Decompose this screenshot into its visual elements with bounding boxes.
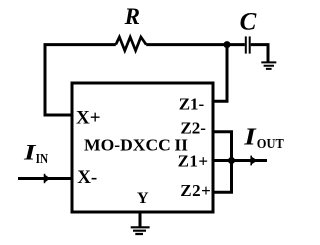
svg-text:Y: Y <box>137 190 149 207</box>
svg-text:C: C <box>240 9 257 36</box>
wire: Y ground stub <box>139 213 142 227</box>
wire: top wire from resistor to capacitor <box>146 43 245 46</box>
svg-text:R: R <box>124 4 140 29</box>
svg-text:I: I <box>243 122 257 150</box>
ground (capacitor) <box>261 62 276 69</box>
wire: Z1+ output <box>213 159 267 162</box>
svg-text:X+: X+ <box>76 108 101 129</box>
svg-text:I: I <box>23 140 36 165</box>
svg-text:MO-DXCC II: MO-DXCC II <box>84 136 188 155</box>
op-amp block U1 MO-DXCCII <box>72 83 213 212</box>
node: junction dot top <box>224 41 231 48</box>
wire: capacitor to ground <box>251 45 268 62</box>
arrowhead input <box>44 174 50 183</box>
arrowhead output <box>251 156 258 165</box>
wire: left feedback loop from X+ up to resistor <box>45 45 116 115</box>
resistor R1 zigzag <box>116 37 146 51</box>
svg-text:IN: IN <box>36 152 49 167</box>
wire: input IIN into X- <box>18 177 72 180</box>
svg-text:Z1-: Z1- <box>179 94 205 113</box>
node: junction dot output <box>228 157 235 164</box>
ground (Y) <box>131 227 150 234</box>
svg-text:X-: X- <box>77 167 97 188</box>
wire: Z2- / bus / Z2+ bracket <box>213 132 232 193</box>
wire: Z1- to top junction <box>213 45 227 102</box>
svg-text:OUT: OUT <box>257 137 285 152</box>
svg-text:Z2+: Z2+ <box>180 181 211 200</box>
capacitor C1 plates <box>245 36 247 53</box>
